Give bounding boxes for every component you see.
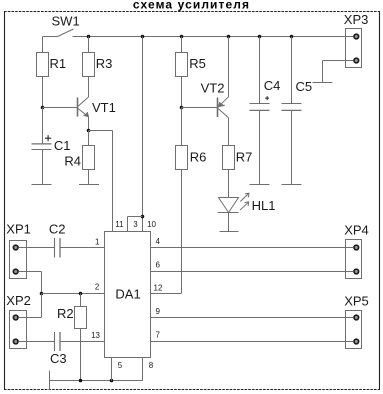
svg-text:1: 1 xyxy=(95,237,100,246)
transistor VT2 collector diagonal xyxy=(218,109,228,118)
transistor VT1 collector diagonal xyxy=(78,97,89,106)
resistor R1 xyxy=(37,53,49,77)
frame border left xyxy=(4,11,6,390)
wire R7 bottom xyxy=(228,170,230,198)
svg-text:4: 4 xyxy=(156,237,161,246)
svg-text:HL1: HL1 xyxy=(252,198,276,213)
LED HL1 arrow 2 xyxy=(240,202,249,210)
svg-text:8: 8 xyxy=(149,361,154,370)
wire pin 2 row xyxy=(42,293,105,295)
wire pin 5 xyxy=(111,358,113,381)
wire SW1 left terminal xyxy=(43,36,58,38)
node rail/VT2 junction xyxy=(227,35,231,39)
ground C4 xyxy=(250,184,270,186)
wire XP1 pin2 jog vert xyxy=(41,272,43,294)
wire VT2 emitter up to rail xyxy=(228,37,230,97)
svg-text:XP3: XP3 xyxy=(344,12,369,27)
wire pin 12 to R6 xyxy=(151,293,182,295)
svg-text:3: 3 xyxy=(133,220,138,229)
wire pin 9 to XP5 xyxy=(151,317,354,319)
switch SW1 blade xyxy=(58,29,74,37)
capacitor C4 plates xyxy=(250,104,270,111)
wire R5 bottom xyxy=(181,77,183,108)
node rail/R5 junction xyxy=(180,35,184,39)
wire R6 top xyxy=(181,108,183,146)
connector XP1 pin 1 xyxy=(13,245,18,250)
svg-text:VT2: VT2 xyxy=(201,80,225,95)
svg-text:C1: C1 xyxy=(54,138,71,153)
wire XP1 pin2 jog horiz xyxy=(19,271,42,273)
ground R4 xyxy=(79,184,99,186)
svg-text:VT1: VT1 xyxy=(92,100,116,115)
svg-text:R4: R4 xyxy=(64,154,81,169)
transistor VT2 emitter arrow xyxy=(218,102,225,107)
svg-text:C5: C5 xyxy=(296,79,313,94)
wire C1 top xyxy=(42,108,44,144)
ground C5 xyxy=(282,184,302,186)
node rail/R3 junction xyxy=(87,35,91,39)
svg-text:C3: C3 xyxy=(50,351,67,366)
wire pin 6 to XP4 xyxy=(151,271,354,273)
node pin3/pin10 junction xyxy=(141,215,145,219)
wire HL1 bottom xyxy=(228,213,230,232)
wire R2 top xyxy=(80,294,82,307)
wire VT2 base xyxy=(182,107,218,109)
transistor VT1 emitter diagonal xyxy=(78,109,89,117)
wire R2 bottom xyxy=(80,329,82,381)
wire C1 bottom xyxy=(42,150,44,185)
resistor R4 xyxy=(83,146,95,170)
ground C1 xyxy=(32,184,52,186)
connector XP5 pin 2 xyxy=(354,339,359,344)
wire R5 top xyxy=(181,37,183,53)
svg-text:R5: R5 xyxy=(189,56,206,71)
node R1/VT1-base/C1 junction xyxy=(41,106,45,110)
svg-text:R6: R6 xyxy=(190,150,207,165)
node VT1 emitter junction xyxy=(87,129,91,133)
wire rail to pin10 (vert) xyxy=(142,37,144,232)
resistor R3 xyxy=(83,53,95,77)
wire ground stub vert xyxy=(49,371,51,391)
wire R1 top xyxy=(42,37,44,53)
wire VT1 emitter down xyxy=(88,117,90,131)
svg-text:5: 5 xyxy=(118,361,123,370)
svg-text:9: 9 xyxy=(156,307,161,316)
resistor R6 xyxy=(176,146,188,170)
node pin5/bus junction xyxy=(110,379,114,383)
connector XP5 body xyxy=(346,311,362,349)
node XP1/XP2 junction xyxy=(40,292,44,296)
capacitor C3 plates xyxy=(55,332,61,351)
svg-text:XP2: XP2 xyxy=(6,293,31,308)
wire pin 7 to XP5 xyxy=(151,341,354,343)
svg-text:13: 13 xyxy=(91,331,100,340)
wire R4 bottom xyxy=(88,170,90,185)
LED HL1 triangle xyxy=(219,198,239,213)
LED HL1 arrow 1 xyxy=(240,193,249,201)
svg-text:11: 11 xyxy=(115,220,124,229)
wire ground bus xyxy=(50,380,143,382)
frame border right xyxy=(379,11,381,390)
IC DA1 body xyxy=(105,232,151,358)
connector XP4 pin 1 xyxy=(354,245,359,250)
capacitor C2 plates xyxy=(55,238,61,258)
connector XP1 pin 2 xyxy=(13,269,18,274)
svg-text:XP4: XP4 xyxy=(344,222,369,237)
wire XP2 pin2 to C3 xyxy=(19,341,55,343)
wire C3 to pin 13 xyxy=(60,341,105,343)
wire VT1 base xyxy=(43,107,78,109)
wire R3 bottom (VT1 collector) xyxy=(88,77,90,98)
transistor VT1 emitter arrow xyxy=(83,112,88,117)
capacitor C1 plates xyxy=(32,144,52,150)
wire XP2 pin1 jog vert xyxy=(41,294,43,318)
wire C4 top xyxy=(259,37,261,104)
wire R1 bottom xyxy=(42,77,44,108)
wire VT2 collector down xyxy=(228,118,230,146)
wire R3 top xyxy=(88,37,90,53)
svg-text:C4: C4 xyxy=(264,78,281,93)
transistor VT2 base bar xyxy=(217,98,219,118)
wire C4 bottom xyxy=(259,111,261,185)
svg-text:C2: C2 xyxy=(49,222,66,237)
node R2 tap junction xyxy=(79,292,83,296)
connector XP2 pin 1 xyxy=(13,315,18,320)
capacitor C1 plus sign xyxy=(45,135,51,141)
svg-text:DA1: DA1 xyxy=(115,287,140,302)
svg-text:10: 10 xyxy=(147,220,156,229)
resistor R7 xyxy=(223,146,235,170)
resistor R2 xyxy=(75,307,87,329)
capacitor C5 plates xyxy=(282,104,302,111)
svg-text:XP1: XP1 xyxy=(6,222,31,237)
transistor VT2 emitter diagonal (arrow to base) xyxy=(218,97,228,107)
wire R4 top xyxy=(88,131,90,146)
svg-text:7: 7 xyxy=(156,331,161,340)
capacitor C4 plus sign xyxy=(265,96,269,100)
connector XP4 body xyxy=(346,240,362,279)
svg-text:12: 12 xyxy=(154,284,163,293)
wire VT1 emitter to pin 11 (horiz) xyxy=(89,130,113,132)
connector XP4 pin 2 xyxy=(354,269,359,274)
node rail/pin10 junction xyxy=(141,35,145,39)
wire XP3 pin2 stub vert xyxy=(322,61,324,83)
svg-text:R7: R7 xyxy=(236,150,253,165)
connector XP2 pin 2 xyxy=(13,339,18,344)
node R2/bus junction xyxy=(79,379,83,383)
connector XP3 body xyxy=(346,29,362,68)
svg-text:R3: R3 xyxy=(96,56,113,71)
svg-text:XP5: XP5 xyxy=(344,293,369,308)
ground HL1 xyxy=(220,231,239,233)
node rail/C4 junction xyxy=(258,35,262,39)
wire XP1 pin1 to C2 xyxy=(19,247,55,249)
svg-text:схема усилителя: схема усилителя xyxy=(133,0,250,12)
resistor R5 xyxy=(176,53,188,77)
wire pin3 jog horiz xyxy=(128,216,143,218)
connector XP3 pin 2 xyxy=(354,58,359,63)
connector XP3 pin 1 xyxy=(354,34,359,39)
transistor VT1 base bar xyxy=(77,98,79,117)
frame border bottom (dashed) xyxy=(4,389,380,391)
svg-text:R2: R2 xyxy=(57,306,74,321)
connector XP2 body xyxy=(10,311,27,349)
wire pin3 (vert) xyxy=(127,217,129,232)
frame border top (dashed) xyxy=(4,11,380,13)
wire C5 bottom xyxy=(291,111,293,185)
wire pin 4 to XP4 xyxy=(151,247,354,249)
ground XP3 stub xyxy=(313,82,333,84)
wire pin 8 xyxy=(142,358,144,381)
svg-text:R1: R1 xyxy=(50,56,67,71)
svg-text:6: 6 xyxy=(156,260,161,269)
wire C5 top xyxy=(291,37,293,104)
wire C2 to pin 1 xyxy=(60,247,105,249)
node R5/VT2-base/R6 junction xyxy=(180,106,184,110)
wire R6 bottom to pin 12 xyxy=(181,170,183,294)
connector XP1 body xyxy=(10,241,27,279)
connector XP5 pin 1 xyxy=(354,315,359,320)
LED HL1 cathode bar xyxy=(218,212,239,214)
wire top power rail xyxy=(73,36,354,38)
wire XP2 pin1 jog horiz xyxy=(19,317,42,319)
wire XP3 pin2 stub horiz xyxy=(323,60,354,62)
wire pin 11 (vert) xyxy=(112,131,114,232)
node rail/C5 junction xyxy=(290,35,294,39)
svg-text:SW1: SW1 xyxy=(52,14,80,29)
svg-text:2: 2 xyxy=(95,283,100,292)
